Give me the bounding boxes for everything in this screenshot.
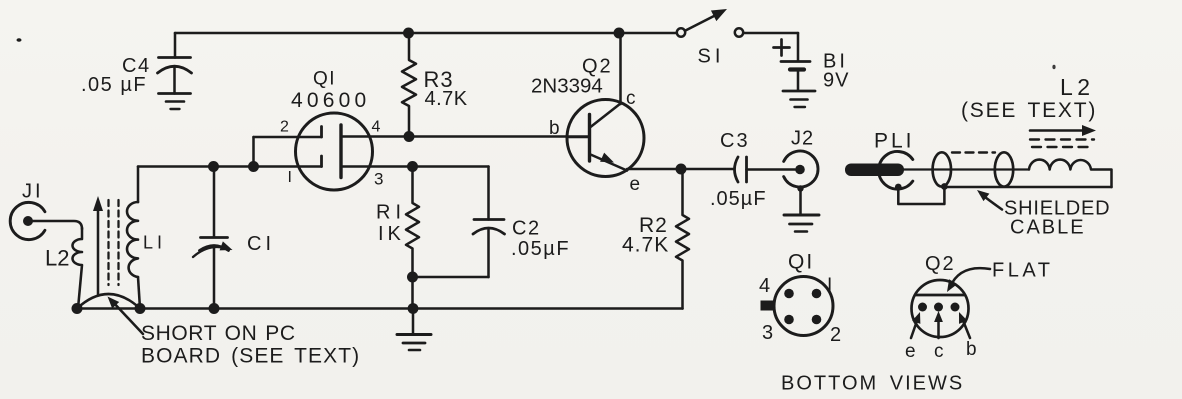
svg-text:2N3394: 2N3394 — [531, 75, 603, 98]
svg-text:.05µF: .05µF — [511, 238, 570, 260]
svg-text:b: b — [549, 118, 561, 139]
svg-text:e: e — [630, 174, 642, 195]
svg-text:.05µF: .05µF — [710, 188, 767, 210]
svg-text:c: c — [934, 341, 945, 362]
svg-text:C3: C3 — [720, 130, 750, 152]
svg-text:J2: J2 — [791, 128, 814, 150]
svg-text:I: I — [288, 169, 294, 186]
svg-text:L2: L2 — [1060, 74, 1095, 100]
svg-text:LI: LI — [143, 233, 166, 253]
svg-text:PLI: PLI — [874, 130, 915, 153]
svg-text:4.7K: 4.7K — [622, 234, 669, 257]
svg-text:CI: CI — [247, 233, 275, 255]
svg-text:.05 µF: .05 µF — [81, 74, 147, 96]
svg-text:40600: 40600 — [291, 89, 370, 112]
svg-text:BOARD (SEE TEXT): BOARD (SEE TEXT) — [141, 345, 360, 368]
svg-text:JI: JI — [22, 181, 44, 203]
svg-text:4: 4 — [759, 275, 772, 297]
svg-text:QI: QI — [313, 69, 336, 90]
svg-text:CABLE: CABLE — [1010, 217, 1086, 239]
svg-text:L2: L2 — [45, 246, 69, 271]
svg-text:2: 2 — [830, 324, 843, 346]
svg-text:e: e — [905, 341, 917, 362]
svg-text:4.7K: 4.7K — [425, 88, 468, 110]
svg-text:I: I — [827, 275, 834, 296]
svg-text:SHORT ON PC: SHORT ON PC — [141, 322, 296, 345]
svg-text:SI: SI — [698, 46, 725, 68]
svg-text:3: 3 — [374, 170, 385, 189]
svg-text:IK: IK — [378, 223, 405, 245]
svg-text:Q2: Q2 — [925, 253, 956, 275]
svg-text:QI: QI — [788, 251, 814, 274]
svg-text:FLAT: FLAT — [992, 260, 1053, 282]
svg-text:BOTTOM VIEWS: BOTTOM VIEWS — [781, 373, 964, 395]
svg-text:C2: C2 — [512, 218, 541, 240]
svg-text:b: b — [966, 339, 978, 360]
svg-text:2: 2 — [280, 119, 290, 136]
svg-text:(SEE TEXT): (SEE TEXT) — [961, 99, 1097, 122]
svg-text:RI: RI — [376, 202, 406, 224]
svg-text:4: 4 — [372, 119, 382, 136]
svg-text:3: 3 — [762, 322, 775, 344]
svg-text:c: c — [626, 88, 637, 109]
svg-text:9V: 9V — [823, 70, 849, 92]
